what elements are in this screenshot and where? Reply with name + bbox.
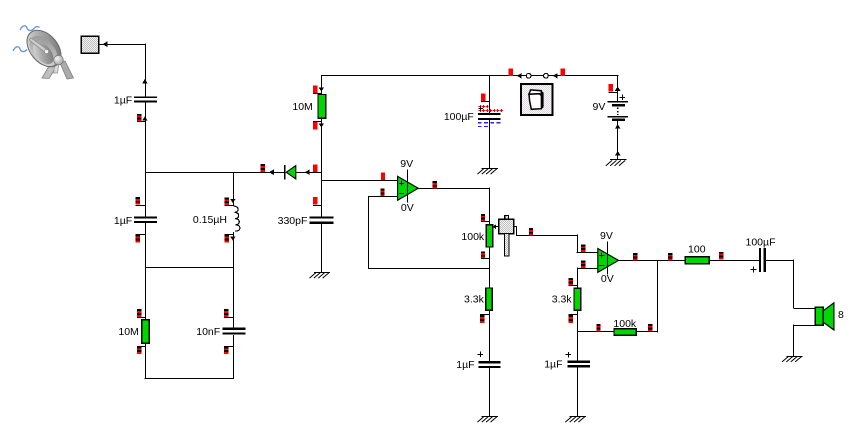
current marker at U1 - input: [380, 189, 384, 191]
current arrow (up): [142, 79, 148, 84]
current arrow (up) above ground: [615, 151, 621, 155]
current marker on wiper wire: [529, 228, 533, 230]
svg-text:1µF: 1µF: [114, 215, 132, 227]
current marker left of R5: [596, 324, 600, 326]
current marker above C5: [481, 94, 485, 101]
svg-text:10nF: 10nF: [196, 326, 220, 338]
svg-text:3.3k: 3.3k: [464, 293, 485, 305]
wire bottom rail: [145, 378, 234, 380]
current marker below C2: [136, 235, 140, 237]
op-amp U2 body: [598, 249, 619, 273]
current arrow (left) after diode: [305, 169, 310, 175]
current marker below C1: [137, 114, 141, 116]
op-amp U2 power line: [607, 242, 609, 275]
op-amp U2 - pin symbol: [600, 265, 605, 267]
op-amp U2 + pin symbol: [600, 255, 605, 257]
wire wiper bend down: [577, 235, 579, 253]
wire C4 bottom to ground: [321, 224, 323, 273]
wire VR1 wiper to U2 + input (horizontal): [514, 226, 517, 228]
current marker left of diode: [261, 164, 265, 166]
wire node E up to R2: [321, 118, 323, 172]
wire R5 to junction: [636, 331, 658, 333]
current marker above R4: [568, 278, 572, 280]
current marker below R3: [480, 315, 484, 317]
wire C6 bottom to ground: [489, 368, 491, 416]
wire C2 bottom to node B: [145, 223, 147, 267]
current arrow (down) below R2: [319, 123, 325, 127]
current marker above C4: [313, 197, 317, 205]
resistor R1 10M body: [142, 320, 149, 343]
current marker after feedback junction: [668, 253, 672, 255]
resistor R5 100k body: [614, 329, 636, 335]
svg-text:3.3k: 3.3k: [552, 293, 573, 305]
wire rail down to C5: [489, 76, 491, 113]
op-amp U1 - pin symbol: [399, 193, 404, 195]
svg-text:100µF: 100µF: [444, 111, 474, 123]
svg-text:0V: 0V: [601, 273, 614, 285]
current marker below R1: [137, 346, 141, 348]
switch SW1 button icon: [521, 84, 552, 115]
capacitor C2 1µF plates: [134, 216, 157, 218]
wire top rail left section: [321, 75, 527, 77]
ground below C4: [314, 272, 330, 274]
current arrow (left) on antenna wire: [103, 41, 108, 47]
svg-text:9V: 9V: [593, 101, 606, 113]
svg-text:100: 100: [688, 244, 706, 256]
current arrow (down) below L1: [230, 236, 236, 240]
wire node B down to R1: [145, 267, 147, 320]
svg-text:10M: 10M: [292, 101, 312, 113]
current arrow (left) before diode: [269, 169, 274, 175]
wire U2 output: [618, 260, 685, 262]
op-amp U1 body: [398, 176, 419, 200]
C5 positive charge row 1: [479, 106, 482, 108]
wire node E branch to U1 + input: [321, 180, 397, 182]
svg-text:1µF: 1µF: [456, 359, 474, 371]
current marker below L1: [225, 235, 229, 237]
current arrow (left) before switch: [517, 73, 522, 79]
wire node C up to L1: [233, 232, 235, 268]
C5 positive charge row 2: [479, 110, 482, 112]
capacitor C8 100µF plates: [759, 248, 761, 272]
switch SW1 contact line: [531, 75, 544, 77]
current marker at U2 + input: [581, 244, 585, 246]
switch SW1 pole right: [544, 73, 549, 78]
svg-text:100µF: 100µF: [746, 237, 776, 249]
C7 polarity plus sign: [566, 354, 571, 356]
svg-text:9V: 9V: [400, 158, 413, 170]
VR1 wiper arrow: [494, 226, 499, 228]
inductor L1 0.15µH coil: [234, 206, 240, 231]
capacitor C3 10nF plates: [223, 328, 246, 330]
wire R3 bottom to C6: [489, 310, 491, 361]
wire VR1 bottom to node G: [489, 247, 491, 288]
svg-text:100k: 100k: [613, 318, 637, 330]
wire antenna terminal to top node: [99, 44, 145, 46]
wire U1 feedback down: [368, 196, 370, 268]
svg-text:100k: 100k: [461, 231, 485, 243]
C5 polarity plus sign: [478, 108, 483, 110]
wire bottom rail up to C3: [233, 335, 235, 379]
wire node B to node C: [145, 267, 233, 269]
battery B1 plus sign: [619, 97, 625, 99]
resistor R3 3.3k body: [486, 288, 493, 310]
wire C8 to speaker top: [766, 260, 794, 262]
svg-text:1µF: 1µF: [114, 95, 132, 107]
current arrow (up) below battery: [615, 124, 621, 128]
wire node A down to C2: [145, 172, 147, 217]
svg-text:9V: 9V: [600, 230, 613, 242]
wire speaker bottom to ground: [794, 325, 815, 327]
wire node E down to C4: [321, 172, 323, 217]
potentiometer VR1 100k body: [486, 225, 492, 247]
svg-text:0V: 0V: [401, 202, 414, 214]
current marker at U2 - input: [581, 260, 585, 262]
wire R2 top to rail: [321, 75, 323, 96]
antenna terminal pad: [81, 36, 99, 53]
wire feedback up to U2 output: [657, 260, 659, 332]
current marker above C2: [136, 197, 140, 199]
current arrow (up) below C1: [142, 117, 148, 121]
wire R6 to C8: [709, 260, 759, 262]
wire U2 - node down to R4: [577, 267, 579, 288]
wire U2 - input: [577, 268, 598, 270]
current marker above C3: [224, 309, 228, 311]
current arrow (down) above R2: [319, 87, 325, 91]
current marker above R1: [137, 309, 141, 311]
wire C1 bottom to node A: [145, 103, 147, 173]
wire U1 output: [418, 188, 489, 190]
wire node A to diode anode: [145, 172, 285, 174]
ground below C7: [570, 416, 586, 418]
resistor R2 10M body: [318, 94, 326, 118]
svg-text:8: 8: [838, 309, 844, 321]
wire U1 feedback bottom: [368, 268, 489, 270]
wire diode to node E: [296, 172, 322, 174]
current marker on rail left of switch: [509, 68, 513, 76]
capacitor C7 1µF plates: [568, 360, 590, 363]
capacitor C5 100µF plates: [478, 113, 501, 115]
C8 polarity plus sign: [751, 269, 757, 271]
op-amp U1 power line: [407, 169, 409, 202]
current marker at U1 output: [433, 181, 437, 183]
current marker at U1 + input: [381, 172, 385, 180]
ground below C5: [482, 168, 498, 170]
current marker at U2 output: [633, 253, 637, 255]
wire C5 bottom to ground: [489, 120, 491, 169]
wire R4 bottom to node H: [577, 310, 579, 360]
current marker right of R6: [719, 252, 723, 254]
current marker below VR1: [481, 252, 485, 254]
wire rail corner down to battery: [617, 75, 619, 101]
C5 negative charge row 2: [478, 126, 489, 128]
current marker above R2: [313, 85, 317, 93]
current arrow (up) above battery: [615, 86, 621, 90]
capacitor C6 1µF plates: [479, 361, 501, 363]
resistor R4 3.3k body: [574, 288, 581, 310]
current marker below R2: [313, 122, 317, 130]
ground below speaker: [786, 356, 802, 358]
current marker right of diode: [313, 164, 317, 172]
capacitor C1 1µF plates: [134, 96, 157, 98]
wire C7 bottom to ground: [577, 367, 579, 416]
wire battery to ground: [617, 121, 619, 160]
current marker right of switch: [561, 68, 565, 76]
VR1 knob icon: [499, 219, 514, 234]
wire C3 top to node C: [233, 267, 235, 328]
diode D1 body: [286, 166, 296, 179]
svg-text:330pF: 330pF: [278, 215, 308, 227]
current marker below R4: [569, 315, 573, 317]
current arrow (down) above L1: [230, 199, 236, 203]
C5 negative charge row 1: [478, 122, 501, 124]
op-amp U1 + pin symbol: [399, 183, 404, 185]
capacitor C4 330pF plates: [310, 217, 334, 219]
wire R1 bottom to bottom rail: [145, 343, 147, 378]
current arrow (left) after switch: [553, 73, 558, 79]
svg-text:1µF: 1µF: [544, 359, 562, 371]
wire L1 top to tank top: [233, 172, 235, 206]
current marker above VR1: [481, 214, 485, 216]
wire top rail right section: [548, 75, 618, 77]
current marker below C3: [224, 346, 228, 348]
diode D1 cathode bar: [284, 165, 286, 179]
ground below C6: [482, 416, 498, 418]
svg-text:10M: 10M: [118, 326, 138, 338]
antenna (satellite dish icon): [13, 24, 74, 79]
battery B1 9V cells: [608, 101, 629, 103]
wire node H to R5: [577, 331, 614, 333]
ground below battery: [610, 159, 626, 161]
wire down to C1 top: [145, 44, 147, 97]
C6 polarity plus sign: [478, 354, 483, 356]
current marker above battery: [609, 84, 613, 92]
resistor R6 100 body: [685, 257, 709, 264]
svg-text:0.15µH: 0.15µH: [193, 214, 227, 226]
current marker above L1: [225, 197, 229, 199]
current marker right of R5: [648, 324, 652, 326]
wire U1 feedback left: [369, 196, 398, 198]
speaker LS1 body: [815, 307, 823, 325]
wire U1 output down to VR1: [489, 188, 491, 225]
switch SW1 pole left: [526, 73, 531, 78]
